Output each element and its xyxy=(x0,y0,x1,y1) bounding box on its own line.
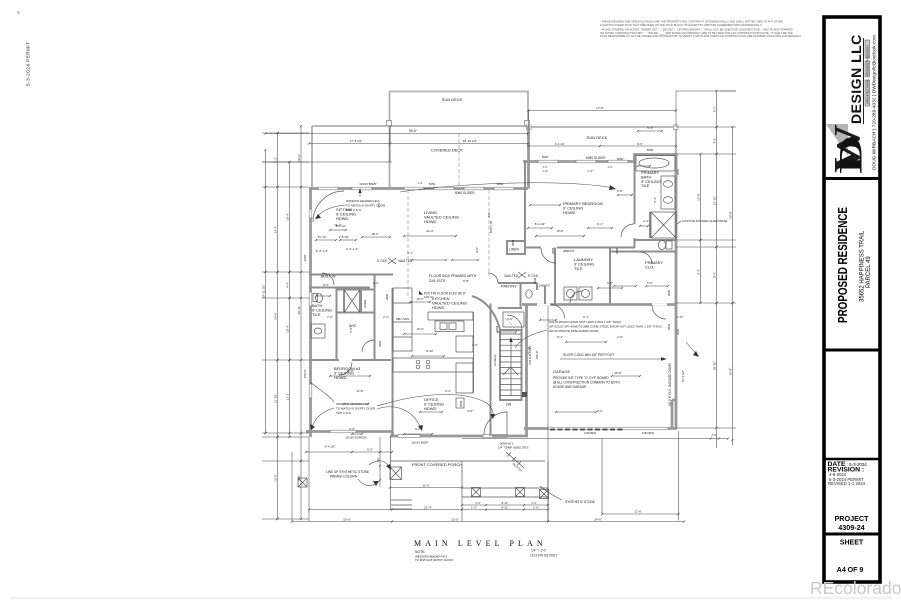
wall: office left xyxy=(392,288,394,436)
svg-text:ARCHITECTURAL: ARCHITECTURAL xyxy=(866,78,870,104)
svg-text:1'-2": 1'-2" xyxy=(377,457,380,462)
proposed residence block xyxy=(835,207,872,323)
svg-text:9'-6 1/2": 9'-6 1/2" xyxy=(339,235,350,239)
wall: pantry xyxy=(498,282,537,284)
primary toilet xyxy=(658,240,665,249)
svg-text:2'-4": 2'-4" xyxy=(383,315,389,319)
svg-text:3'-4": 3'-4" xyxy=(643,219,649,223)
svg-text:2'-0": 2'-0" xyxy=(712,434,717,437)
svg-text:SOLID WOOD DOOR NOT LESS THAN: SOLID WOOD DOOR NOT LESS THAN 1 3/8" THI… xyxy=(549,320,621,324)
svg-text:1/4" TEMP SIDELITES: 1/4" TEMP SIDELITES xyxy=(498,446,528,450)
office long leaders xyxy=(377,407,421,428)
wall: bath zone top xyxy=(309,274,393,276)
laundry door arc xyxy=(570,291,582,303)
wall: bath/toilet divider xyxy=(634,239,676,241)
svg-text:SLOPE CONC MIN 1/8" PER FOOT: SLOPE CONC MIN 1/8" PER FOOT xyxy=(563,353,614,357)
svg-text:TILE: TILE xyxy=(641,183,650,188)
garage entry door arc xyxy=(652,305,666,319)
built-in shelving xyxy=(309,287,370,289)
svg-text:OR 20 MINUTE FIRE-RATED DOOR: OR 20 MINUTE FIRE-RATED DOOR xyxy=(549,329,599,333)
svg-text:15'-6": 15'-6" xyxy=(343,517,351,521)
wall: right exterior xyxy=(675,153,678,429)
deck2 post B xyxy=(674,125,679,130)
svg-text:13'-2": 13'-2" xyxy=(416,297,423,301)
deck post A xyxy=(387,121,392,126)
svg-text:LINEN: LINEN xyxy=(363,300,367,308)
garage interior dim guide xyxy=(547,306,549,522)
far top right dims xyxy=(716,91,718,448)
svg-text:2X8 JSTS: 2X8 JSTS xyxy=(429,279,446,283)
svg-text:14'-8": 14'-8" xyxy=(273,312,277,320)
svg-text:8'-10": 8'-10" xyxy=(426,349,433,353)
fridge xyxy=(456,336,473,352)
svg-text:12'-0": 12'-0" xyxy=(346,369,353,373)
svg-text:8'-11": 8'-11" xyxy=(501,505,508,509)
svg-text:TILE: TILE xyxy=(574,266,583,271)
pier left xyxy=(298,478,307,487)
svg-text:5050: 5050 xyxy=(647,148,654,152)
svg-text:94'-6": 94'-6" xyxy=(409,129,417,133)
svg-text:10'-2": 10'-2" xyxy=(416,327,423,331)
svg-text:9'-4": 9'-4" xyxy=(696,269,700,275)
garage width dim xyxy=(602,513,679,515)
front door opening xyxy=(483,435,507,438)
svg-text:RESIDENTIAL: RESIDENTIAL xyxy=(866,56,870,76)
svg-text:9'-1": 9'-1" xyxy=(583,315,589,319)
svg-text:2'-4" 1'-4": 2'-4" 1'-4" xyxy=(316,249,328,253)
svg-text:5'-0": 5'-0" xyxy=(349,327,353,333)
svg-text:SYNTHETIC STONE: SYNTHETIC STONE xyxy=(565,500,595,504)
small tick pairs for interior dims xyxy=(316,239,336,241)
svg-text:15'-10": 15'-10" xyxy=(318,235,327,239)
svg-text:1'-4": 1'-4" xyxy=(417,181,422,185)
svg-text:20'-5": 20'-5" xyxy=(614,371,621,375)
jog connectors xyxy=(391,432,394,437)
wall: primary bedroom top xyxy=(523,160,635,163)
svg-text:HDWD: HDWD xyxy=(432,305,445,310)
svg-text:21'-4": 21'-4" xyxy=(424,505,432,509)
windows top wall xyxy=(318,187,338,190)
svg-text:SUN DECK: SUN DECK xyxy=(442,97,463,102)
stair newel post xyxy=(522,392,527,397)
svg-text:13'-8": 13'-8" xyxy=(273,474,277,482)
wall: shaft bottom xyxy=(336,312,374,314)
tub xyxy=(636,156,675,172)
kitchen counter top xyxy=(428,312,473,320)
primary bedroom door arc xyxy=(541,248,556,263)
wall: office/entry bottom xyxy=(390,435,492,438)
svg-text:18'-10 1/2": 18'-10 1/2" xyxy=(463,139,477,143)
shower xyxy=(651,212,676,238)
wall: garage top xyxy=(522,303,676,306)
stair curved wall xyxy=(472,296,500,329)
svg-text:8'-4 1/2": 8'-4 1/2" xyxy=(336,224,346,228)
svg-text:A4 OF 9: A4 OF 9 xyxy=(837,567,864,574)
svg-text:HDWD: HDWD xyxy=(334,375,347,380)
wall: shaft xyxy=(344,290,360,313)
svg-text:1'-8": 1'-8" xyxy=(677,315,683,319)
svg-text:6'-1": 6'-1" xyxy=(597,222,603,226)
covered deck boundary xyxy=(311,126,313,187)
svg-text:PROJECT: PROJECT xyxy=(835,514,870,523)
svg-text:SUN DECK: SUN DECK xyxy=(587,135,608,140)
hall bath toilet xyxy=(316,294,323,303)
svg-text:FLOOR BOX FRAMED WITH: FLOOR BOX FRAMED WITH xyxy=(429,274,477,278)
svg-text:5'-8": 5'-8" xyxy=(607,281,613,285)
svg-text:@ ALL CONSTRUCTION COMMON TO B: @ ALL CONSTRUCTION COMMON TO BOTH xyxy=(553,380,620,384)
DW Design LLC logo xyxy=(826,34,878,174)
svg-text:4309-24: 4309-24 xyxy=(838,523,864,532)
svg-text:2868: 2868 xyxy=(459,400,463,407)
svg-text:12'-10": 12'-10" xyxy=(273,394,277,403)
porch column 2 xyxy=(472,488,481,497)
svg-text:8'-4": 8'-4" xyxy=(712,272,716,278)
svg-text:24'-4": 24'-4" xyxy=(426,229,433,233)
long leader to slider xyxy=(400,183,614,192)
wall: bedroom bottom xyxy=(525,247,635,249)
svg-text:DOUG WIRBACH ( 720-289-4032 ): DOUG WIRBACH ( 720-289-4032 ) DWDesignll… xyxy=(872,35,878,170)
svg-text:VAULTED: VAULTED xyxy=(504,274,519,278)
svg-text:35652 HAPPINESS TRAIL: 35652 HAPPINESS TRAIL xyxy=(860,230,866,302)
svg-text:REVISED 1-1 2024: REVISED 1-1 2024 xyxy=(828,481,866,486)
wall: hall/garage top xyxy=(522,304,546,306)
svg-text:BUILT IN: BUILT IN xyxy=(321,275,336,279)
wic door arc xyxy=(362,340,374,352)
linen closet left wing xyxy=(360,290,362,313)
svg-text:6080 SLIDER: 6080 SLIDER xyxy=(586,156,606,160)
porch column 4 xyxy=(540,490,549,499)
svg-text:115/16 BSMT: 115/16 BSMT xyxy=(359,182,377,186)
svg-text:8'-4 1/2": 8'-4 1/2" xyxy=(535,222,546,226)
wall: garage bottom xyxy=(524,427,677,430)
svg-text:6'-0": 6'-0" xyxy=(647,281,653,285)
svg-text:115/16PA: 115/16PA xyxy=(584,431,596,435)
svg-text:FRONT COVERED PORCH: FRONT COVERED PORCH xyxy=(412,462,462,467)
clo door arc xyxy=(640,252,652,264)
svg-text:DESIGN: DESIGN xyxy=(866,45,870,57)
svg-text:9' CEIL: 9' CEIL xyxy=(528,274,539,278)
wall: bath/wic right xyxy=(374,275,376,361)
bottom small dims xyxy=(306,451,392,453)
svg-text:2650: 2650 xyxy=(303,254,307,261)
svg-text:PRIMED COLUMN: PRIMED COLUMN xyxy=(330,475,358,479)
svg-text:2'-8": 2'-8" xyxy=(467,409,473,413)
wall: shaft top xyxy=(336,289,374,291)
svg-text:HDWD: HDWD xyxy=(424,219,437,224)
washer dryer xyxy=(564,287,577,300)
svg-text:FIN FLR ELEV: FIN FLR ELEV xyxy=(528,345,532,364)
svg-text:9'-0": 9'-0" xyxy=(637,142,643,146)
svg-text:14'-4": 14'-4" xyxy=(273,226,277,234)
svg-text:1'-6": 1'-6" xyxy=(607,165,612,169)
sun deck upper xyxy=(390,92,529,127)
svg-text:TO MATCH 8' ENTRY DOOR: TO MATCH 8' ENTRY DOOR xyxy=(415,558,453,562)
svg-text:22'-0": 22'-0" xyxy=(451,517,459,521)
svg-text:TO MATCH 8' ENTRY DOOR: TO MATCH 8' ENTRY DOOR xyxy=(336,406,376,410)
powder toilet xyxy=(526,290,532,298)
garage lower tie row xyxy=(462,438,728,440)
pantry door arc xyxy=(488,273,498,283)
svg-text:HDWD: HDWD xyxy=(424,406,437,411)
svg-text:SOLE RESPONSIBILITY OF THE OWN: SOLE RESPONSIBILITY OF THE OWNER AND CON… xyxy=(600,34,801,38)
svg-text:5'-4": 5'-4" xyxy=(653,197,657,203)
svg-text:2868: 2868 xyxy=(385,293,389,300)
stair arrow xyxy=(510,340,512,396)
svg-text:15'-8": 15'-8" xyxy=(556,229,563,233)
svg-text:4'-4": 4'-4" xyxy=(285,282,289,288)
svg-text:LINEN: LINEN xyxy=(509,248,520,252)
shower enclosure wall xyxy=(649,212,651,238)
svg-text:2'-8": 2'-8" xyxy=(617,189,623,193)
svg-text:LINE UP SYNTHETIC STONE: LINE UP SYNTHETIC STONE xyxy=(326,470,369,474)
svg-text:5050: 5050 xyxy=(617,157,624,161)
linen closet xyxy=(507,241,525,254)
svg-text:SHEET: SHEET xyxy=(840,540,864,547)
wall: bedroom3 bottom xyxy=(306,430,392,433)
svg-text:4'-2": 4'-2" xyxy=(712,138,716,144)
svg-text:HDWD: HDWD xyxy=(563,210,576,215)
svg-text:18'-4": 18'-4" xyxy=(371,232,378,236)
hall bath vanity xyxy=(311,324,325,338)
svg-text:100'-0": 100'-0" xyxy=(535,351,539,360)
svg-text:1'-6": 1'-6" xyxy=(531,501,536,505)
svg-text:13'-10": 13'-10" xyxy=(712,196,716,205)
wall: garage left xyxy=(525,305,528,429)
svg-text:MAIN LEVEL PLAN: MAIN LEVEL PLAN xyxy=(414,539,547,548)
svg-text:8'-0": 8'-0" xyxy=(373,281,379,285)
svg-text:5050: 5050 xyxy=(542,155,549,159)
bottom dim rows xyxy=(309,509,548,511)
svg-text:12'-2": 12'-2" xyxy=(285,393,289,401)
ceiling break markers xyxy=(407,190,409,296)
svg-text:9' CEIL: 9' CEIL xyxy=(377,259,388,263)
deck post B xyxy=(525,121,530,126)
wall: laundry right / clo left xyxy=(609,248,611,304)
svg-text:8'-11": 8'-11" xyxy=(502,501,509,505)
svg-text:1'-6": 1'-6" xyxy=(533,505,539,509)
garage SE jog xyxy=(671,400,674,429)
svg-text:CUSTOM POURED SHWR BASE: CUSTOM POURED SHWR BASE xyxy=(682,219,727,223)
vanity primary bath xyxy=(661,176,675,209)
svg-text:WINDOW HEADER HGT: WINDOW HEADER HGT xyxy=(346,199,380,203)
svg-text:1'-6": 1'-6" xyxy=(471,505,477,509)
svg-text:5'-4": 5'-4" xyxy=(647,126,653,130)
right ties xyxy=(676,90,736,92)
garage door opening xyxy=(548,427,668,430)
svg-text:2868: 2868 xyxy=(615,247,619,254)
svg-text:1'-6": 1'-6" xyxy=(475,501,480,505)
svg-text:36'-8": 36'-8" xyxy=(728,368,732,376)
kitchen island + sink xyxy=(435,321,464,332)
svg-text:10'-2": 10'-2" xyxy=(297,154,301,162)
svg-text:VAULTED: VAULTED xyxy=(398,259,413,263)
svg-text:7'-0": 7'-0" xyxy=(327,315,333,319)
svg-text:3'-1": 3'-1" xyxy=(407,251,413,255)
svg-text:115/16 EGRESS: 115/16 EGRESS xyxy=(345,436,367,440)
svg-text:2868: 2868 xyxy=(511,239,515,246)
svg-text:40'-11": 40'-11" xyxy=(297,305,301,314)
svg-text:11'-8": 11'-8" xyxy=(356,389,363,393)
svg-text:BUILT IN: BUILT IN xyxy=(489,221,493,233)
svg-text:24'-6": 24'-6" xyxy=(594,517,602,521)
svg-text:DBL OVEN: DBL OVEN xyxy=(396,317,409,321)
west wall cabinets xyxy=(393,288,412,351)
svg-text:1'-6": 1'-6" xyxy=(587,169,593,173)
wall: bedroom3 top xyxy=(309,359,391,361)
svg-text:2868: 2868 xyxy=(667,323,671,330)
svg-text:COVERED DECK: COVERED DECK xyxy=(431,148,463,153)
svg-text:9'-0": 9'-0" xyxy=(475,247,479,253)
svg-text:2'-4" 1'-4": 2'-4" 1'-4" xyxy=(346,247,358,251)
closet by stairs xyxy=(503,312,524,327)
svg-text:D: D xyxy=(834,135,870,174)
porch column 3 xyxy=(516,488,525,497)
garage door panels xyxy=(550,429,624,431)
svg-text:25'-8": 25'-8" xyxy=(728,211,732,219)
svg-text:6'-8": 6'-8" xyxy=(463,279,469,283)
elev flag xyxy=(419,291,423,295)
svg-text:PARCEL 49: PARCEL 49 xyxy=(866,256,872,288)
deck2 post A xyxy=(527,125,532,130)
svg-text:6'-4 1/2": 6'-4 1/2" xyxy=(555,142,565,146)
svg-text:10'-4": 10'-4" xyxy=(285,325,289,333)
svg-text:2868: 2868 xyxy=(667,289,671,296)
wall: bedroom/bath divider xyxy=(634,162,636,248)
top dims xyxy=(266,133,529,135)
svg-text:PROVIDE 5/8" TYPE "X" GYP. BOA: PROVIDE 5/8" TYPE "X" GYP. BOARD xyxy=(553,376,609,380)
svg-text:115/16 BSMT: 115/16 BSMT xyxy=(411,441,429,445)
svg-text:HOUSE AND GARAGE: HOUSE AND GARAGE xyxy=(553,385,586,389)
svg-text:HDWD: HDWD xyxy=(336,216,349,221)
svg-text:1/4" = 1'-0": 1/4" = 1'-0" xyxy=(531,549,547,553)
svg-text:12'-6": 12'-6" xyxy=(634,510,642,514)
stair chevron xyxy=(503,367,518,375)
svg-text:NOTE:: NOTE: xyxy=(415,550,425,554)
svg-text:OR SOLID OR HONEYCOMB CORE STE: OR SOLID OR HONEYCOMB CORE STEEL DOOR NO… xyxy=(549,324,663,328)
svg-text:2868: 2868 xyxy=(495,325,499,332)
bath door arc xyxy=(322,273,334,285)
title block divider 4 xyxy=(823,533,881,536)
wall: sitting/living top xyxy=(309,187,528,190)
wall: left exterior xyxy=(309,187,312,437)
porch steps left xyxy=(391,499,412,501)
wall: bedroom left xyxy=(524,162,526,251)
svg-text:DESIGN LLC: DESIGN LLC xyxy=(848,34,864,124)
svg-text:1'-4": 1'-4" xyxy=(542,165,547,169)
svg-text:DN: DN xyxy=(506,403,512,407)
svg-text:LOCATION OTHER THAN THAT SPECI: LOCATION OTHER THAN THAT SPECIFIED ON TH… xyxy=(600,23,763,27)
misc vertical guides in plan xyxy=(389,126,391,144)
svg-text:9'-4": 9'-4" xyxy=(445,389,451,393)
title block divider 3 xyxy=(823,458,881,461)
svg-text:2'-6": 2'-6" xyxy=(349,427,355,431)
deck post line xyxy=(389,126,391,189)
svg-text:8'-4": 8'-4" xyxy=(557,335,563,339)
svg-text:5'-0": 5'-0" xyxy=(415,427,421,431)
svg-text:PANTRY: PANTRY xyxy=(501,284,517,289)
kitchen counter right xyxy=(456,363,473,393)
svg-text:5050: 5050 xyxy=(429,182,436,186)
svg-text:5-3-2024 PERMIT: 5-3-2024 PERMIT xyxy=(26,41,31,86)
svg-text:8'-0": 8'-0" xyxy=(323,283,329,287)
svg-text:17'-6 1/2": 17'-6 1/2" xyxy=(350,139,363,143)
left dim column xyxy=(265,150,267,433)
svg-text:17'-8": 17'-8" xyxy=(596,106,604,110)
svg-text:4'-6": 4'-6" xyxy=(377,202,381,208)
garage entry arc from hall xyxy=(551,305,565,319)
svg-text:18'-4": 18'-4" xyxy=(285,213,289,221)
svg-text:100'-0": 100'-0" xyxy=(424,295,433,299)
wall: hall bottom xyxy=(492,435,528,438)
wall: laundry left xyxy=(554,248,556,304)
wall: built-in divider xyxy=(336,288,338,361)
svg-text:REcolorado: REcolorado xyxy=(810,578,901,598)
porch col dim xyxy=(379,437,381,487)
svg-text:2868 PKT: 2868 PKT xyxy=(563,249,575,253)
hall door arc xyxy=(507,315,522,330)
svg-text:4'-0": 4'-0" xyxy=(487,212,491,218)
front door arc xyxy=(484,412,507,435)
wall: clo top xyxy=(610,251,676,253)
sun deck right xyxy=(529,126,677,128)
svg-text:2868: 2868 xyxy=(551,247,555,254)
entry corner arc xyxy=(313,191,344,222)
kitchen east line xyxy=(473,312,475,393)
svg-text:1'-6": 1'-6" xyxy=(472,343,478,347)
svg-text:GARAGE: GARAGE xyxy=(553,369,570,374)
svg-text:1'-4": 1'-4" xyxy=(542,169,548,173)
faint page bottom edge xyxy=(10,597,893,600)
door gap bedroom xyxy=(541,246,557,249)
svg-text:4'-8": 4'-8" xyxy=(297,475,301,481)
svg-text:3'-6": 3'-6" xyxy=(507,317,513,321)
svg-text:3060: 3060 xyxy=(676,168,680,175)
svg-text:1/2 WALL: 1/2 WALL xyxy=(493,354,497,366)
svg-text:2'-0": 2'-0" xyxy=(617,335,623,339)
svg-text:- THESE DRAWING AND SPECIFICA: - THESE DRAWING AND SPECIFICATIONS ARE T… xyxy=(600,20,783,24)
svg-text:11'-4": 11'-4" xyxy=(422,483,429,487)
bath door arc primary xyxy=(621,224,634,237)
svg-text:5050: 5050 xyxy=(497,182,504,186)
svg-text:CLO.: CLO. xyxy=(645,264,654,269)
stairs xyxy=(500,330,522,400)
wall: deck2 left / covered deck right xyxy=(527,126,530,189)
svg-text:6'-2": 6'-2" xyxy=(367,448,373,452)
title block outer frame xyxy=(824,17,880,582)
stone column diagonal leader xyxy=(506,452,524,468)
svg-text:29'-11 1/2": 29'-11 1/2" xyxy=(261,284,265,298)
porch column 1 xyxy=(390,467,402,480)
left ties xyxy=(262,132,309,134)
svg-text:PROPOSED RESIDENCE: PROPOSED RESIDENCE xyxy=(835,207,850,323)
svg-text:2868 PKT: 2868 PKT xyxy=(539,284,551,288)
svg-text:2868: 2868 xyxy=(378,340,382,347)
corner speck xyxy=(17,11,20,14)
svg-text:TOP U.N.O.: TOP U.N.O. xyxy=(346,208,362,212)
svg-text:16' X 8' O.H. GARAGE DOOR: 16' X 8' O.H. GARAGE DOOR xyxy=(668,362,672,406)
svg-text:5'-2": 5'-2" xyxy=(712,106,716,112)
top right deck dims xyxy=(529,110,677,112)
svg-text:115/16: 115/16 xyxy=(303,369,307,378)
svg-text:20'-10": 20'-10" xyxy=(712,361,716,370)
bedroom door arc xyxy=(339,362,352,375)
svg-text:3'-0": 3'-0" xyxy=(597,409,603,413)
svg-text:TOP U.N.O.: TOP U.N.O. xyxy=(336,411,352,415)
wall: office right / stair hall left xyxy=(490,304,492,437)
svg-text:2868: 2868 xyxy=(533,277,537,284)
svg-text:1123 FIN SQ FEET: 1123 FIN SQ FEET xyxy=(530,554,557,558)
office cabinet xyxy=(456,398,464,408)
